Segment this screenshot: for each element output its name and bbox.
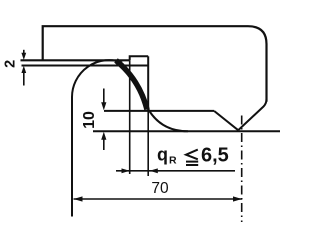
dimension 2: upper arrow stem	[23, 50, 25, 55]
wheel flange crest arc	[72, 60, 122, 97]
arrowhead: dim 2 lower (up)	[21, 66, 26, 73]
svg-text:6,5: 6,5	[201, 145, 229, 167]
gauge notch (step)	[130, 56, 149, 60]
extension line at qR point P2	[147, 111, 149, 176]
centerline (dash-dot) at 70mm point	[241, 116, 243, 223]
svg-text:q: q	[157, 145, 168, 165]
gauge tip right diagonal	[238, 99, 266, 130]
gauge body outline (top bar, rounded corner, right edge)	[43, 26, 267, 101]
gauge jaw thick curve along flange flank	[116, 60, 147, 109]
gauge notch right wall / edge	[147, 56, 149, 111]
wheel tread hollow curve	[147, 107, 188, 131]
extension line at qR point P1	[129, 60, 131, 174]
wheel tread line	[93, 130, 280, 132]
wheel flange left edge	[71, 97, 73, 217]
arrowhead: dim qR left (right-pointing)	[122, 168, 130, 173]
dimension 70 line	[74, 198, 243, 200]
arrowhead: dim qR right (left-pointing)	[150, 168, 158, 173]
symbol less-or-equal (with double bar)	[186, 150, 198, 165]
arrowhead: dim 70 left (left-pointing)	[74, 196, 83, 201]
dimension 10: lower arrow stem	[103, 139, 105, 151]
svg-text:10: 10	[81, 111, 98, 129]
gauge face / flange-top tangent line	[21, 59, 130, 61]
arrowhead: dim 2 upper (down)	[21, 53, 26, 60]
gauge lower face line (10mm line)	[104, 110, 214, 112]
dimension 2: lower arrow stem	[23, 72, 25, 86]
svg-text:2: 2	[3, 60, 19, 68]
dimension 10: upper arrow stem	[103, 89, 105, 104]
svg-text:R: R	[169, 154, 177, 166]
dimension qR line	[116, 170, 235, 172]
gauge tip left diagonal	[214, 111, 238, 130]
arrowhead: dim 10 lower (up)	[101, 132, 106, 140]
arrowhead: dim 10 upper (down)	[101, 102, 106, 110]
svg-text:70: 70	[151, 180, 169, 197]
arrowhead: dim 70 right (right-pointing)	[233, 196, 242, 201]
2mm reference line	[22, 65, 149, 67]
